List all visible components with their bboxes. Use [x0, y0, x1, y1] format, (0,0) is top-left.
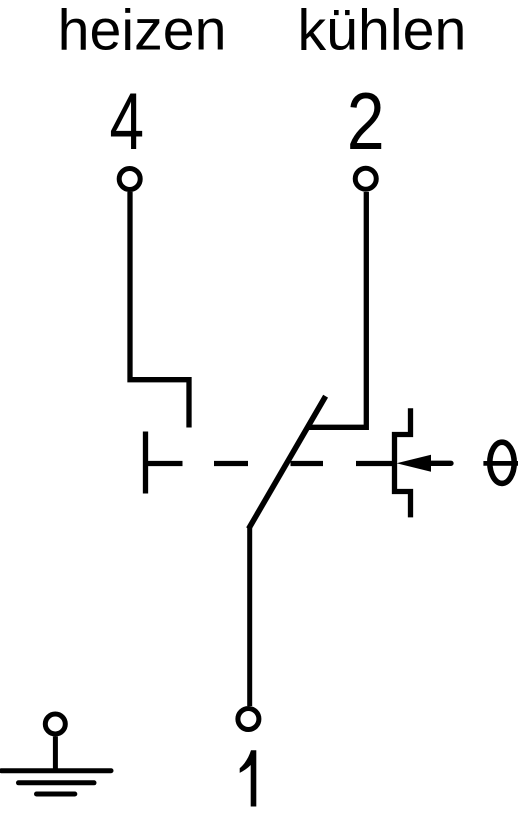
svg-text:4: 4 — [110, 77, 145, 167]
actuator linkage dash c — [356, 461, 395, 466]
thermal actuator contact (zigzag bracket) — [395, 408, 411, 517]
ground bar 2 — [19, 780, 95, 785]
wire from switch arm to terminal 1 — [247, 526, 252, 706]
fixed contact heizen (bar) — [143, 432, 148, 494]
terminal circle 1 — [238, 709, 259, 730]
ground bar 1 — [1, 768, 111, 773]
svg-text:2: 2 — [347, 75, 385, 166]
svg-text:heizen: heizen — [58, 0, 227, 63]
wire from terminal 2 to switch arm pivot — [307, 192, 367, 427]
theta symbol ellipse — [490, 442, 514, 483]
wire from terminal 4 to heizen contact — [130, 192, 189, 428]
switch arm (diagonal) — [249, 396, 326, 529]
ground bar 3 — [37, 792, 75, 797]
theta symbol crossbar — [483, 461, 518, 466]
terminal circle 2 — [355, 168, 376, 189]
svg-text:kühlen: kühlen — [297, 0, 466, 63]
actuator arrow shaft — [428, 461, 451, 466]
fixed contact heizen (stub) — [146, 461, 183, 466]
terminal circle 4 — [119, 169, 140, 190]
ground terminal circle — [45, 714, 65, 734]
actuator linkage dash b — [291, 461, 324, 466]
ground stem — [53, 737, 58, 771]
pin number 1 — [240, 750, 257, 806]
actuator arrow head — [397, 455, 432, 472]
actuator linkage dash a — [214, 461, 248, 466]
